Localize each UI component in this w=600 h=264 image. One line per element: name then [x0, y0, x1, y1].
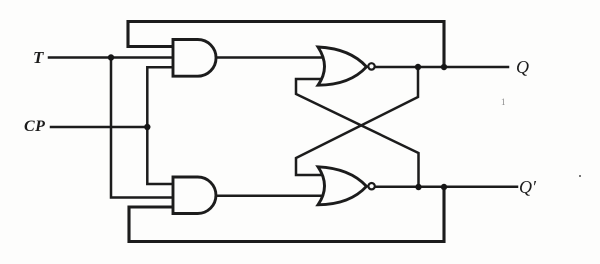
junction dot on T wire	[108, 54, 114, 60]
junction dot Q line at cross-coupling	[415, 64, 421, 70]
junction dot Q' line at cross-coupling	[415, 184, 421, 190]
junction dot Q' line at bottom feedback	[441, 184, 447, 190]
wire CP input horizontal	[51, 126, 147, 129]
wire cross-coupling Q to bottom NOR input	[296, 67, 418, 175]
wire top feedback rail from Q to top AND	[128, 22, 444, 68]
wire T input horizontal	[49, 56, 173, 59]
label Q	[516, 57, 529, 78]
stray scan mark near Q	[501, 97, 506, 107]
AND gate bottom	[173, 177, 216, 214]
label CP	[24, 118, 45, 136]
junction dot on CP wire	[144, 124, 150, 130]
label T	[33, 48, 43, 68]
AND gate top	[173, 40, 216, 77]
stray scan speck right	[579, 175, 581, 177]
NOR gate bottom body	[318, 167, 367, 205]
wire bottom feedback rail from Q' to bottom AND	[129, 187, 444, 242]
NOR gate bottom inversion bubble	[368, 183, 374, 189]
wire top AND output to top NOR input	[216, 56, 327, 59]
NOR gate top inversion bubble	[368, 63, 374, 69]
label Q'	[519, 177, 536, 198]
wire bottom AND output to bottom NOR input	[216, 195, 327, 198]
wire Q output line	[376, 66, 508, 69]
wire CP branch vertical to both AND gates	[147, 67, 173, 184]
junction dot Q line at top feedback	[441, 64, 447, 70]
wire cross-coupling Q' to top NOR input	[296, 79, 419, 187]
NOR gate top body	[318, 47, 367, 85]
wire T branch vertical to bottom AND	[111, 58, 173, 198]
wire Q' output line	[376, 186, 517, 189]
